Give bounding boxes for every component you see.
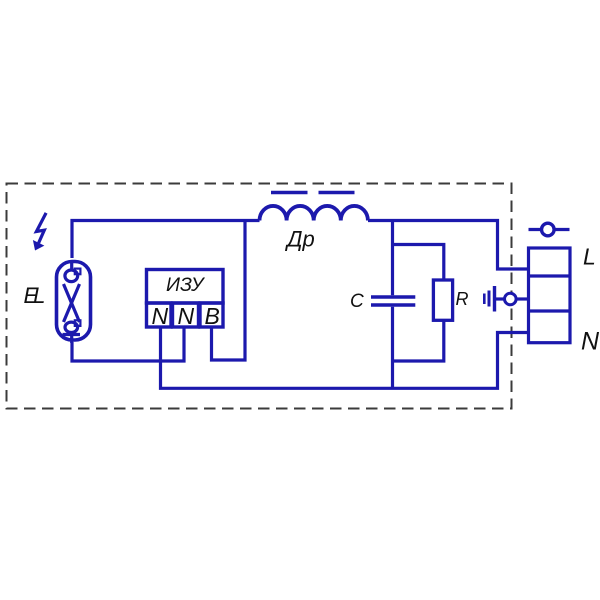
svg-text:N: N	[178, 303, 195, 329]
svg-text:L: L	[583, 244, 596, 270]
svg-text:Др: Др	[284, 227, 315, 252]
svg-text:C: C	[350, 291, 364, 312]
svg-text:B: B	[205, 303, 220, 329]
svg-text:N: N	[581, 328, 600, 356]
svg-text:R: R	[456, 289, 469, 309]
svg-text:ИЗУ: ИЗУ	[166, 274, 206, 296]
svg-text:N: N	[152, 303, 169, 329]
